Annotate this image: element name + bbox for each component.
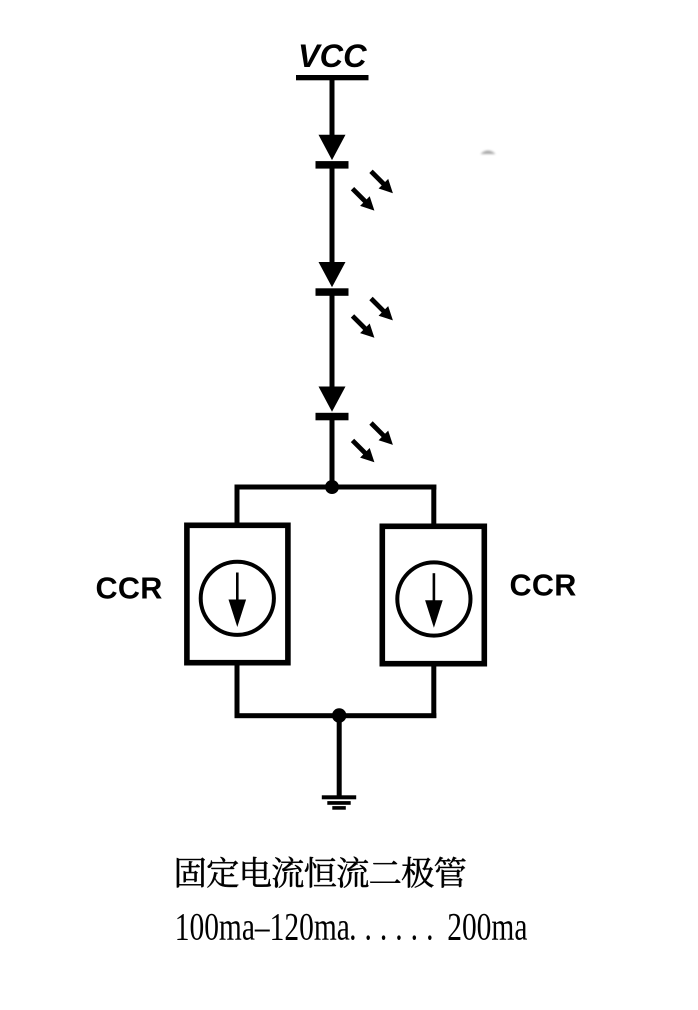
current-source circle (right CCR) <box>397 562 470 635</box>
CCR current-regulator box (right) <box>382 526 484 663</box>
LED D2 light-emission arrow lower <box>353 316 375 338</box>
node A junction dot <box>325 480 339 494</box>
LED D1 (triangle + cathode bar) <box>316 135 349 169</box>
ground symbol <box>322 795 356 809</box>
caption text: 固定电流恒流二极管 (fixed-current constant-current diode) <box>177 857 466 888</box>
wire: D1 cathode to D2 anode <box>330 168 335 262</box>
svg-text:VCC: VCC <box>298 38 367 74</box>
wire: right CCR bottom to bottom bus <box>431 664 436 718</box>
wire: top horizontal bus <box>235 485 437 490</box>
scan artifact smudge (faint) <box>481 151 496 155</box>
LED D2 light-emission arrow upper <box>371 299 393 321</box>
wire: VCC rail to D1 anode <box>330 80 335 135</box>
caption text: 100ma-120ma......200ma <box>175 904 528 948</box>
svg-text:100ma–120ma: 100ma–120ma <box>175 904 350 948</box>
LED D3 (triangle + cathode bar) <box>316 387 349 421</box>
svg-text:......: ...... <box>349 904 441 948</box>
LED D1 light-emission arrow lower <box>353 189 375 211</box>
current-source circle (left CCR) <box>201 562 274 635</box>
current direction arrow (left CCR) <box>229 573 247 628</box>
node B junction dot <box>332 708 346 722</box>
wire: D2 cathode to D3 anode <box>330 296 335 387</box>
svg-text:CCR: CCR <box>96 571 163 605</box>
wire: D3 cathode to node A <box>330 420 335 490</box>
CCR current-regulator box (left) <box>187 525 288 662</box>
LED D2 (triangle + cathode bar) <box>316 262 349 296</box>
LED D1 light-emission arrow upper <box>371 171 393 193</box>
wire: bus to left CCR top <box>235 485 240 525</box>
svg-text:200ma: 200ma <box>447 904 527 948</box>
LED D3 light-emission arrow upper <box>371 423 393 445</box>
wire: bottom horizontal bus <box>235 713 437 718</box>
wire: left CCR bottom to bottom bus <box>235 663 240 718</box>
svg-text:CCR: CCR <box>510 569 577 603</box>
wire: node B to ground <box>337 715 342 796</box>
VCC power rail bar <box>296 75 369 80</box>
LED D3 light-emission arrow lower <box>353 440 375 462</box>
current direction arrow (right CCR) <box>425 573 443 628</box>
wire: bus to right CCR top <box>431 485 436 526</box>
